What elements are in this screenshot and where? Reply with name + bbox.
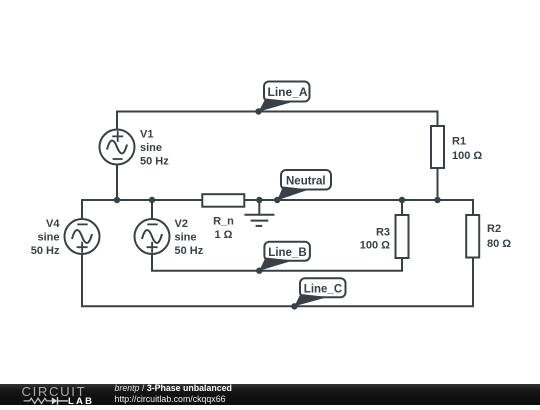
junction V1 bottom on neutral rail xyxy=(114,197,120,203)
CircuitLab logo xyxy=(0,382,110,407)
svg-text:V2: V2 xyxy=(175,218,188,230)
svg-text:100 Ω: 100 Ω xyxy=(452,150,482,162)
voltage source V4 xyxy=(31,218,100,257)
svg-text:Line_B: Line_B xyxy=(268,247,306,259)
credit text xyxy=(115,383,232,405)
svg-text:sine: sine xyxy=(140,142,162,154)
junction V2 top on neutral rail xyxy=(149,197,155,203)
junction Line_A tag attach xyxy=(255,108,261,114)
svg-text:50 Hz: 50 Hz xyxy=(140,156,169,168)
junction ground on neutral rail xyxy=(256,197,262,203)
junction Line_C tag attach xyxy=(291,303,297,309)
wire Line_C rail xyxy=(82,254,473,306)
svg-text:sine: sine xyxy=(175,231,197,243)
wire R3 top xyxy=(401,200,403,215)
junction Neutral tag attach xyxy=(274,197,280,203)
svg-text:R2: R2 xyxy=(487,223,501,235)
wire neutral rail xyxy=(82,200,473,219)
wire Line_B rail xyxy=(152,254,402,271)
wire V1 bottom xyxy=(116,165,118,201)
footer bar xyxy=(0,384,540,405)
resistor R_n xyxy=(202,194,244,241)
svg-text:R3: R3 xyxy=(376,227,390,239)
svg-text:1 Ω: 1 Ω xyxy=(215,229,233,241)
svg-text:80 Ω: 80 Ω xyxy=(487,238,511,250)
svg-text:V1: V1 xyxy=(140,129,153,141)
voltage source V2 xyxy=(135,218,204,257)
wire R1 bottom xyxy=(437,168,439,200)
resistor R3 xyxy=(360,215,409,258)
resistor R1 xyxy=(431,126,482,168)
svg-text:Neutral: Neutral xyxy=(286,175,326,187)
svg-text:V4: V4 xyxy=(46,218,60,230)
wire top rail Line_A xyxy=(117,112,438,130)
svg-text:50 Hz: 50 Hz xyxy=(175,245,204,257)
node tag Neutral xyxy=(277,170,331,200)
wire V2 top xyxy=(151,200,153,219)
node tag Line_B xyxy=(259,242,310,271)
junction R3 top on neutral rail xyxy=(399,197,405,203)
svg-text:LAB: LAB xyxy=(68,396,94,407)
resistor R2 xyxy=(466,215,511,258)
ground xyxy=(244,200,274,226)
svg-text:Line_A: Line_A xyxy=(268,85,308,99)
svg-text:Line_C: Line_C xyxy=(304,284,342,296)
svg-text:100 Ω: 100 Ω xyxy=(360,240,390,252)
svg-text:sine: sine xyxy=(37,231,59,243)
svg-text:50 Hz: 50 Hz xyxy=(31,245,60,257)
voltage source V1 xyxy=(100,129,170,168)
junction Line_B tag attach xyxy=(256,268,262,274)
svg-text:R_n: R_n xyxy=(213,215,234,227)
node tag Line_C xyxy=(294,278,345,306)
junction R1 bottom on neutral rail xyxy=(434,197,440,203)
node tag Line_A xyxy=(259,82,310,112)
svg-text:R1: R1 xyxy=(452,135,466,147)
